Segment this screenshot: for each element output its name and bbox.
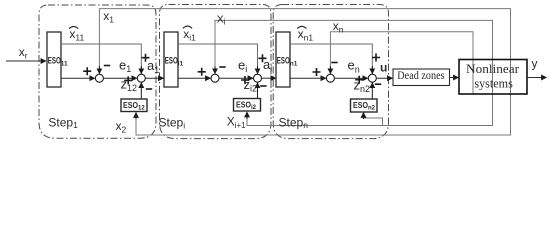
- label plus: [83, 67, 91, 75]
- wire feedback x1 top loop: [99, 9, 510, 135]
- block ESOn1: [276, 32, 290, 87]
- wire xhat11 output: [61, 44, 141, 74]
- svg-text:xn: xn: [333, 19, 344, 35]
- svg-text:x1: x1: [103, 9, 114, 25]
- wire xi+1 into ESOi2: [246, 112, 248, 119]
- svg-text:systems: systems: [474, 75, 512, 90]
- label xhati1: [183, 26, 196, 42]
- wire xhati1 output: [178, 44, 258, 74]
- step box Step1 (dash-dot rounded frame): [39, 5, 156, 138]
- step box Stepi (dash-dot rounded frame): [160, 5, 272, 139]
- svg-text:u: u: [380, 60, 387, 74]
- svg-text:e1: e1: [119, 57, 131, 74]
- wire xhatn1 output: [290, 44, 372, 74]
- label minus: [331, 62, 337, 64]
- label minus sumi2 bottom: [260, 85, 266, 87]
- svg-text:xn1: xn1: [298, 27, 314, 43]
- block ESOi2: [234, 99, 261, 112]
- wire e1: [103, 77, 136, 79]
- svg-text:xr: xr: [19, 45, 28, 61]
- label plus: [198, 68, 206, 76]
- wire ESOi1 to sumi1: [178, 77, 211, 79]
- label minus: [219, 66, 225, 68]
- svg-text:ei: ei: [238, 57, 247, 74]
- wire en: [334, 77, 367, 79]
- svg-text:Step1: Step1: [48, 115, 78, 130]
- wire y output: [527, 77, 547, 79]
- summing junction sumn1: [326, 74, 334, 82]
- wire xn into sumn1: [329, 66, 331, 74]
- wire zi2 from ESOi2: [257, 83, 259, 99]
- label plus left sumn2: [355, 76, 363, 84]
- wire feedback ESOn2 tap: [364, 113, 383, 126]
- svg-text:Nonlinear: Nonlinear: [466, 61, 520, 76]
- wire u to dead zones: [376, 77, 392, 79]
- label plus top sumi2: [259, 54, 267, 62]
- svg-text:a1: a1: [147, 58, 159, 75]
- node xr input: [6, 60, 46, 62]
- wire x2 into ESO12: [135, 113, 137, 120]
- summing junction sumn2: [368, 74, 376, 82]
- block nonlinear systems: [459, 60, 527, 95]
- svg-text:Xi: Xi: [217, 13, 226, 26]
- label plus top sum2: [142, 54, 150, 62]
- wire ei: [219, 77, 253, 79]
- label plus: [313, 68, 321, 76]
- svg-text:y: y: [532, 57, 538, 71]
- wire into ESOn2: [363, 113, 365, 120]
- step box Stepn (dash-dot rounded frame): [273, 5, 388, 139]
- block ESO11: [47, 32, 61, 87]
- wire a1 to ESOi1: [145, 77, 163, 79]
- label minus sumn2 bottom: [375, 83, 381, 85]
- wire xi into sumi1: [214, 66, 216, 74]
- svg-text:x11: x11: [69, 27, 84, 43]
- label minus: [104, 65, 110, 67]
- svg-text:x2: x2: [116, 119, 127, 135]
- summing junction sumi2: [254, 74, 262, 82]
- wire ESOn1 to sumn1: [290, 77, 326, 79]
- wire ESO11 to sum1: [61, 77, 95, 79]
- block dead zones: [393, 69, 450, 86]
- label xhat11: [69, 26, 84, 42]
- wire feedback xi top loop: [215, 20, 493, 125]
- svg-text:Dead zones: Dead zones: [397, 70, 445, 82]
- wire zn2 from ESOn2: [371, 83, 373, 99]
- wire z12 from ESO12: [140, 83, 142, 99]
- svg-text:Stepi: Stepi: [159, 116, 186, 131]
- summing junction sum1 step1: [95, 74, 103, 82]
- wire x1 into sum1: [98, 66, 100, 74]
- wire dead zones to nonlinear: [450, 77, 459, 79]
- block ESOi1: [164, 32, 178, 87]
- svg-text:Xi+1: Xi+1: [227, 115, 246, 131]
- label plus left sum2: [124, 76, 132, 84]
- label xhatn1: [297, 26, 313, 42]
- block ESO12: [121, 99, 147, 112]
- label plus top sumn2: [372, 54, 380, 62]
- label minus sum2 bottom: [146, 88, 152, 90]
- block ESOn2: [351, 99, 378, 112]
- wire ai to ESOn1: [262, 77, 276, 79]
- label plus left sumi2: [241, 76, 249, 84]
- wire feedback xn top loop: [330, 32, 473, 94]
- svg-text:xi1: xi1: [183, 27, 196, 43]
- svg-text:Stepn: Stepn: [279, 115, 309, 130]
- svg-text:en: en: [348, 58, 360, 75]
- summing junction sum2 step1: [137, 74, 145, 82]
- summing junction sumi1: [211, 74, 219, 82]
